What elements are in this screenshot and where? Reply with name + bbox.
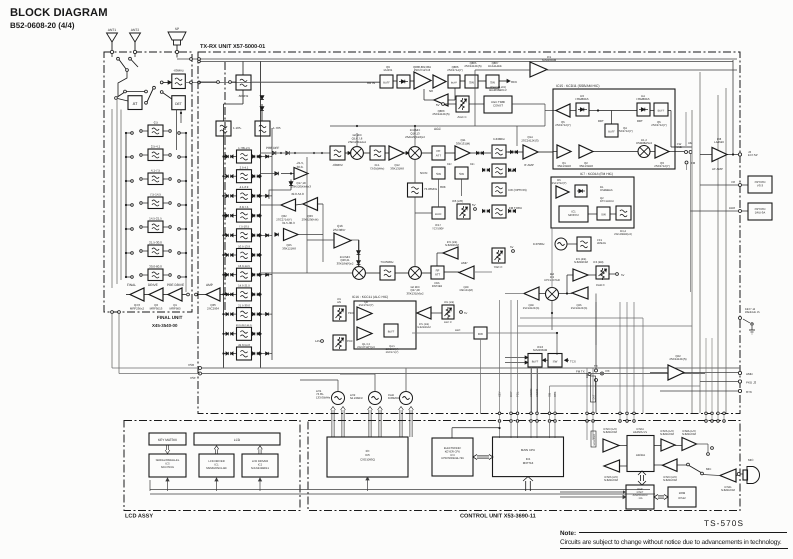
svg-text:IC2: IC2 — [258, 464, 263, 467]
svg-text:5V: 5V — [510, 245, 514, 249]
svg-text:H/S: H/S — [337, 301, 342, 304]
svg-text:R8K: R8K — [440, 185, 446, 189]
svg-text:7.5-10.5: 7.5-10.5 — [239, 225, 250, 229]
svg-text:RB IN: RB IN — [367, 81, 375, 85]
svg-text:B52-0608-20 (4/4): B52-0608-20 (4/4) — [10, 21, 75, 30]
svg-text:30.0-49.0-54.0-: 30.0-49.0-54.0- — [236, 324, 253, 327]
svg-text:ATT: ATT — [436, 154, 442, 158]
svg-text:TCT500F: TCT500F — [432, 227, 444, 231]
svg-text:FM THRU: FM THRU — [509, 206, 522, 210]
svg-text:73.05(MHz): 73.05(MHz) — [370, 167, 385, 171]
svg-text:ALC C: ALC C — [444, 321, 452, 324]
svg-text:HSM88AS: HSM88AS — [575, 97, 588, 101]
svg-text:2SK520(K44)x3: 2SK520(K44)x3 — [291, 185, 311, 189]
svg-text:BUFF: BUFF — [608, 131, 615, 134]
svg-text:2SC2412K(S): 2SC2412K(S) — [521, 139, 538, 143]
svg-text:AGC C: AGC C — [457, 115, 466, 119]
svg-text:AMP: AMP — [461, 261, 468, 265]
svg-text:BUFF: BUFF — [383, 82, 390, 85]
svg-text:D51: D51 — [470, 163, 475, 166]
svg-text:2.5-4.1: 2.5-4.1 — [240, 166, 249, 170]
svg-text:3SK131R8: 3SK131R8 — [557, 164, 571, 168]
svg-text:3SK131(M)x2: 3SK131(M)x2 — [406, 291, 424, 295]
svg-text:7.5-14.5: 7.5-14.5 — [150, 193, 161, 197]
svg-text:14S: 14S — [315, 340, 320, 343]
svg-text:RU261: RU261 — [384, 68, 393, 72]
svg-text:3SK121R8: 3SK121R8 — [282, 247, 296, 251]
svg-text:DRU-3A: DRU-3A — [755, 211, 766, 215]
svg-text:-60MHz: -60MHz — [173, 69, 184, 73]
svg-text:LCD DRIVER: LCD DRIVER — [252, 460, 268, 463]
svg-text:UPD78004GB-746: UPD78004GB-746 — [441, 457, 464, 460]
svg-text:LCD ASSY: LCD ASSY — [125, 514, 153, 520]
svg-text:NJM2902M: NJM2902M — [445, 244, 460, 247]
svg-text:TGC C: TGC C — [494, 265, 503, 269]
svg-text:PRE DFF: PRE DFF — [266, 146, 279, 150]
svg-text:2SC3897: 2SC3897 — [333, 228, 346, 232]
svg-text:NJM2904M: NJM2904M — [542, 58, 557, 62]
svg-text:EXT.SP: EXT.SP — [748, 153, 758, 157]
svg-text:MAIN CPU: MAIN CPU — [521, 448, 535, 452]
svg-text:VS-3: VS-3 — [757, 184, 764, 188]
svg-text:NJU3715G: NJU3715G — [161, 466, 174, 469]
svg-text:14.5-21.5: 14.5-21.5 — [149, 217, 162, 221]
svg-text:NJM2100M: NJM2100M — [603, 431, 618, 434]
svg-text:LCD: LCD — [234, 438, 241, 442]
svg-text:NJM2903M: NJM2903M — [574, 261, 589, 264]
svg-text:MOD/ANO: MOD/ANO — [593, 434, 596, 446]
svg-text:AMD: AMD — [746, 372, 754, 376]
svg-text:IC512: IC512 — [678, 496, 686, 500]
svg-text:AT: AT — [133, 101, 138, 106]
svg-text:RTK: RTK — [746, 390, 752, 394]
svg-text:5V: 5V — [436, 103, 440, 107]
svg-text:13.9-14.5: 13.9-14.5 — [238, 264, 250, 268]
svg-text:AK4506-VS: AK4506-VS — [633, 431, 647, 434]
svg-text:IC6: IC6 — [526, 457, 531, 461]
svg-text:BUFF: BUFF — [658, 110, 665, 113]
svg-text:RN73B3: RN73B3 — [432, 285, 443, 288]
svg-text:SW: SW — [601, 213, 606, 217]
svg-text:DKT: DKT — [593, 394, 596, 399]
svg-text:2SC2412K(S): 2SC2412K(S) — [464, 64, 481, 68]
svg-text:MSM5265GS-BK: MSM5265GS-BK — [206, 467, 227, 470]
svg-text:2SC2712(Y): 2SC2712(Y) — [654, 164, 669, 168]
svg-text:IF AMP: IF AMP — [524, 163, 534, 167]
svg-text:4.1-6.9: 4.1-6.9 — [240, 185, 249, 189]
svg-text:73.05MHz: 73.05MHz — [424, 187, 438, 191]
svg-text:5V: 5V — [621, 273, 625, 277]
svg-text:PADDLE J5: PADDLE J5 — [745, 310, 760, 314]
svg-text:30.0-60.0: 30.0-60.0 — [149, 265, 162, 269]
svg-text:3SK131R8: 3SK131R8 — [390, 167, 404, 171]
svg-text:IC6 (1/9): IC6 (1/9) — [444, 301, 454, 304]
svg-text:NJM2100M: NJM2100M — [663, 479, 678, 482]
svg-text:CXD1095Q: CXD1095Q — [360, 457, 376, 461]
svg-text:POC: POC — [347, 340, 353, 343]
svg-text:TCS: TCS — [570, 360, 576, 364]
svg-text:6.8-7.5: 6.8-7.5 — [240, 205, 249, 209]
svg-text:IC15 : KCD11 (SSB/AM HIC): IC15 : KCD11 (SSB/AM HIC) — [556, 84, 599, 88]
svg-text:2.5-4.1: 2.5-4.1 — [151, 145, 161, 149]
svg-text:30.0-: 30.0- — [297, 165, 304, 169]
svg-text:CAR C: CAR C — [596, 283, 605, 287]
svg-text:DET: DET — [598, 119, 604, 123]
svg-text:ATT: ATT — [435, 273, 440, 277]
svg-text:PKD J2: PKD J2 — [746, 381, 757, 385]
svg-text:AD/DA: AD/DA — [636, 453, 645, 457]
svg-text:ANT2: ANT2 — [131, 28, 140, 32]
svg-text:NJM2100M: NJM2100M — [660, 433, 675, 436]
svg-text:64.22MHz: 64.22MHz — [350, 396, 363, 400]
svg-text:3SK131(M): 3SK131(M) — [456, 142, 470, 146]
svg-text:IC16 : KCC11 (ALC HIC): IC16 : KCC11 (ALC HIC) — [352, 295, 388, 299]
svg-text:SW: SW — [490, 81, 495, 85]
svg-text:-116: -116 — [638, 497, 643, 500]
svg-text:14.5-21.5: 14.5-21.5 — [238, 284, 250, 288]
svg-text:49.0-54.0: 49.0-54.0 — [291, 192, 304, 196]
svg-text:NJM2100M: NJM2100M — [721, 489, 736, 492]
svg-text:2SK520(K44): 2SK520(K44) — [302, 218, 319, 222]
svg-text:VSF: VSF — [190, 376, 196, 380]
svg-text:3SK131(M): 3SK131(M) — [459, 289, 473, 292]
svg-text:MRF983: MRF983 — [169, 307, 180, 311]
svg-text:73.05MHz: 73.05MHz — [380, 260, 394, 264]
svg-text:10.5-13.9: 10.5-13.9 — [238, 244, 250, 248]
svg-text:-60MHz: -60MHz — [332, 163, 343, 167]
svg-text:RX: RX — [606, 369, 610, 373]
svg-text:BUFF: BUFF — [532, 361, 539, 364]
svg-text:BUFF: BUFF — [435, 213, 442, 216]
svg-text:IC1: IC1 — [214, 464, 219, 467]
svg-text:NJU6432BFE1: NJU6432BFE1 — [251, 467, 269, 470]
svg-text:SSB: SSB — [676, 146, 682, 149]
svg-text:-2.5: -2.5 — [153, 121, 159, 125]
svg-text:2SC2714(Y): 2SC2714(Y) — [447, 68, 462, 72]
svg-text:DTC143XU: DTC143XU — [600, 200, 614, 203]
svg-text:HSM88ASx2: HSM88ASx2 — [636, 141, 652, 145]
svg-text:2SC271(Y): 2SC271(Y) — [386, 351, 399, 354]
svg-text:NJM2902M: NJM2902M — [417, 326, 430, 329]
svg-text:DRO: DRO — [729, 206, 736, 210]
svg-text:SW: SW — [553, 360, 558, 364]
svg-text:DET: DET — [175, 102, 182, 106]
svg-text:2SC2412K(S): 2SC2412K(S) — [432, 112, 449, 116]
svg-text:2SC2954: 2SC2954 — [207, 307, 219, 311]
svg-text:PRE DRIVE: PRE DRIVE — [167, 283, 184, 287]
svg-text:AF AMP: AF AMP — [712, 167, 723, 171]
svg-text:2SC2712(Y)x3: 2SC2712(Y)x3 — [357, 346, 375, 349]
svg-text:SW: SW — [459, 172, 464, 176]
svg-text:2SC2712(Y): 2SC2712(Y) — [555, 123, 570, 127]
svg-text:-1.705: -1.705 — [272, 126, 281, 130]
svg-text:SW: SW — [469, 81, 474, 85]
svg-text:D52: D52 — [447, 163, 452, 166]
svg-text:N8: N8 — [429, 89, 433, 93]
svg-text:M37718: M37718 — [523, 461, 534, 465]
svg-text:5V: 5V — [472, 203, 476, 207]
svg-text:BLOCK DIAGRAM: BLOCK DIAGRAM — [10, 7, 108, 19]
svg-text:RF: RF — [437, 149, 441, 153]
svg-text:2SC2412K(S): 2SC2412K(S) — [571, 307, 588, 310]
svg-text:455kHz: 455kHz — [597, 242, 607, 245]
svg-text:8.83MHz: 8.83MHz — [388, 396, 400, 400]
svg-text:133.05MHz: 133.05MHz — [316, 395, 331, 399]
svg-text:CONST: CONST — [493, 104, 503, 108]
svg-text:31.5-30.3: 31.5-30.3 — [282, 221, 295, 225]
svg-text:Note:: Note: — [560, 530, 576, 537]
svg-text:MRF256x2: MRF256x2 — [130, 307, 145, 311]
svg-text:CW (OPTION): CW (OPTION) — [508, 188, 527, 192]
svg-text:TX-RX UNIT X57-5000-01: TX-RX UNIT X57-5000-01 — [200, 44, 265, 50]
svg-text:ROM: ROM — [679, 491, 686, 495]
svg-text:6.83MHz: 6.83MHz — [493, 137, 505, 141]
svg-text:MIC: MIC — [706, 467, 711, 471]
svg-text:2SC2712(Y): 2SC2712(Y) — [359, 304, 374, 307]
svg-text:2SC2714Yx3: 2SC2714Yx3 — [414, 68, 431, 72]
svg-text:REK: REK — [511, 80, 517, 84]
svg-text:2SC2412K(S): 2SC2412K(S) — [669, 357, 686, 361]
svg-text:AMP: AMP — [206, 283, 213, 287]
svg-text:AGC: AGC — [434, 127, 442, 131]
svg-text:BUFF: BUFF — [388, 331, 395, 334]
svg-text:MRF5015: MRF5015 — [150, 307, 163, 311]
svg-text:HSM88AS: HSM88AS — [636, 97, 649, 101]
svg-text:CONTROL UNIT X53-3690-11: CONTROL UNIT X53-3690-11 — [460, 514, 536, 520]
svg-text:3SK131R8: 3SK131R8 — [579, 164, 593, 168]
svg-text:FINAL: FINAL — [127, 283, 136, 287]
svg-text:MC3372: MC3372 — [568, 213, 579, 217]
svg-text:8.37MHz: 8.37MHz — [533, 242, 545, 246]
svg-text:X45-3540-00: X45-3540-00 — [152, 323, 178, 328]
svg-text:2SC4081R(x2): 2SC4081R(x2) — [614, 233, 632, 236]
svg-text:FM TX: FM TX — [576, 370, 585, 374]
svg-text:IC6 (2/8): IC6 (2/8) — [452, 199, 463, 203]
svg-text:IC6 (8/8): IC6 (8/8) — [593, 261, 604, 264]
svg-text:BUFF: BUFF — [451, 82, 458, 85]
svg-text:2SC2712(Y): 2SC2712(Y) — [617, 129, 632, 133]
svg-text:2SC2412K(S): 2SC2412K(S) — [523, 307, 540, 310]
svg-text:21.5-30.0: 21.5-30.0 — [238, 303, 250, 307]
svg-text:ANT1: ANT1 — [108, 28, 117, 32]
svg-text:2SC2712(Y): 2SC2712(Y) — [552, 182, 567, 185]
svg-text:49.0-54.0: 49.0-54.0 — [238, 343, 250, 347]
svg-text:3SK184(R)x2: 3SK184(R)x2 — [337, 261, 354, 265]
svg-text:DKT: DKT — [586, 372, 589, 378]
svg-text:5V: 5V — [464, 312, 467, 315]
svg-text:Circuits are subject to change: Circuits are subject to change without n… — [560, 539, 782, 546]
svg-text:TS-570S: TS-570S — [704, 519, 744, 528]
svg-text:1.105-: 1.105- — [233, 126, 242, 130]
svg-text:DRIVE: DRIVE — [148, 283, 158, 287]
svg-text:1.705-2.5: 1.705-2.5 — [238, 146, 250, 150]
svg-text:MIC: MIC — [748, 458, 754, 462]
svg-text:FINAL UNIT: FINAL UNIT — [157, 315, 183, 320]
svg-text:4.1-7.5: 4.1-7.5 — [151, 169, 161, 173]
svg-text:2SC2712(Y): 2SC2712(Y) — [651, 123, 666, 127]
svg-text:LCD DRIVER: LCD DRIVER — [208, 460, 224, 463]
svg-text:NJM2904M: NJM2904M — [533, 348, 548, 352]
svg-text:PRO: PRO — [348, 312, 354, 315]
svg-text:IC7 : KCD18 (FM HIC): IC7 : KCD18 (FM HIC) — [580, 172, 613, 176]
svg-text:LA4646: LA4646 — [714, 140, 724, 144]
svg-text:N9 IN: N9 IN — [420, 171, 427, 175]
svg-text:EW: EW — [478, 332, 483, 336]
svg-text:NJM2100M: NJM2100M — [682, 433, 697, 436]
svg-text:ALC: ALC — [455, 328, 460, 332]
svg-text:21.5-30.0: 21.5-30.0 — [149, 241, 162, 245]
svg-text:SW: SW — [436, 172, 441, 176]
svg-text:DFA114EK: DFA114EK — [488, 64, 502, 68]
svg-text:NJM2100M: NJM2100M — [604, 479, 619, 482]
svg-text:DET: DET — [637, 119, 643, 123]
svg-text:VSR: VSR — [188, 363, 195, 367]
svg-text:HSM88AS: HSM88AS — [600, 189, 613, 192]
svg-text:KEY MATRIX: KEY MATRIX — [158, 438, 178, 442]
svg-text:BU4066BCFV: BU4066BCFV — [489, 88, 507, 92]
